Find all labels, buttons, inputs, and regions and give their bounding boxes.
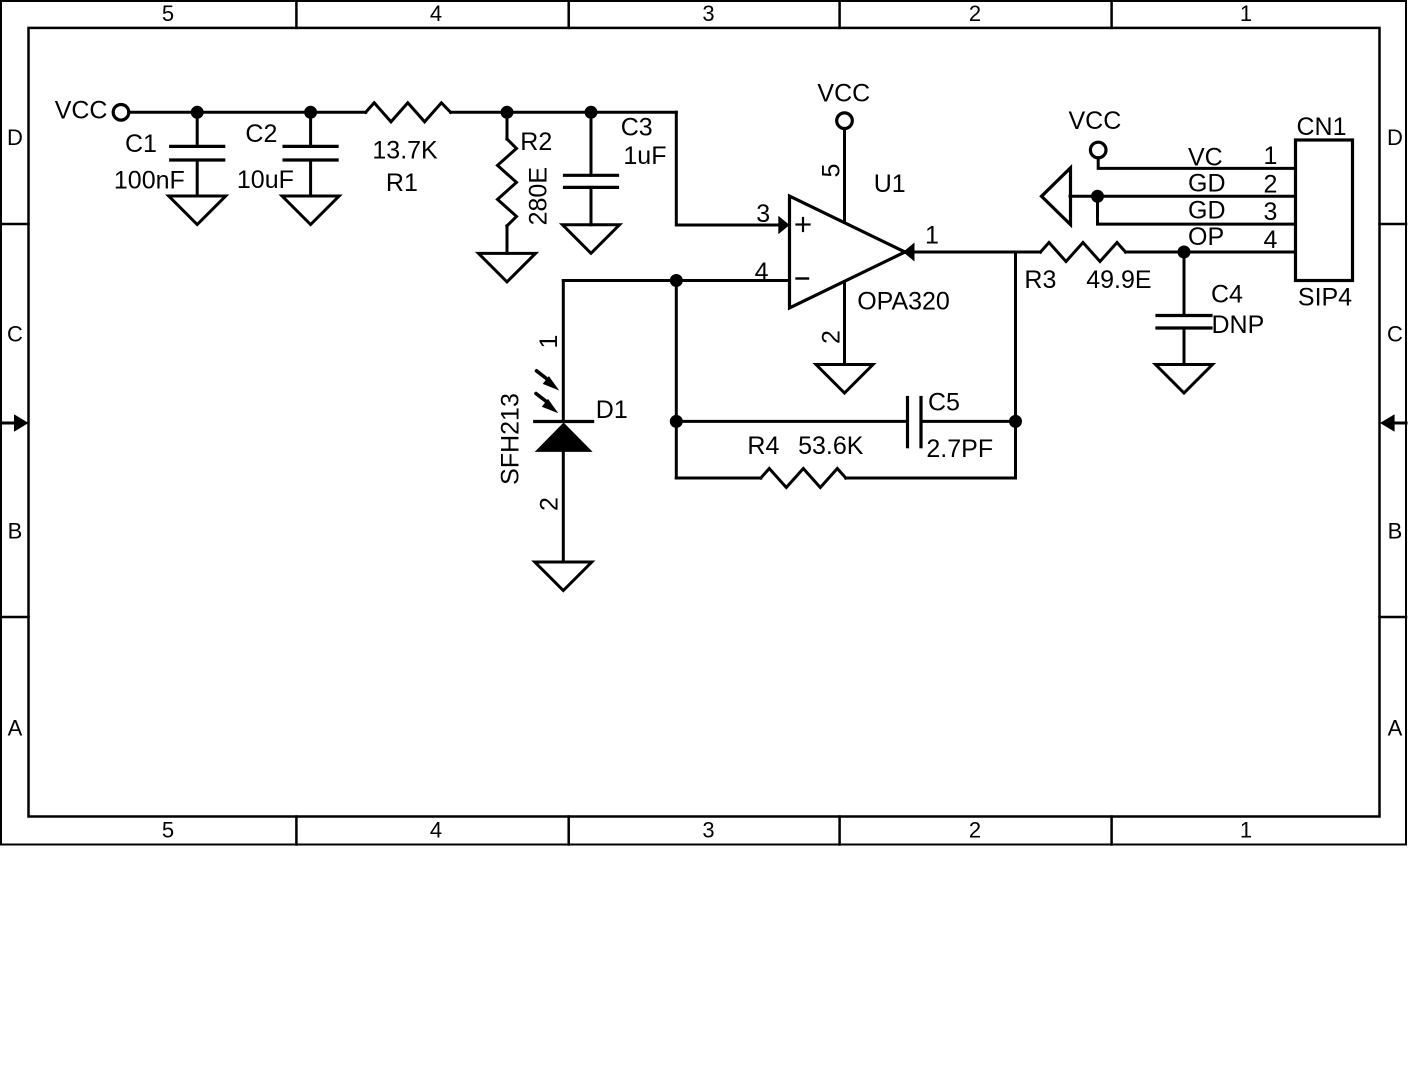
node feedback left junction xyxy=(670,415,683,428)
svg-text:2.7PF: 2.7PF xyxy=(926,435,993,463)
svg-text:2: 2 xyxy=(1264,170,1278,198)
svg-text:VCC: VCC xyxy=(55,97,108,125)
resistor R3 xyxy=(1041,243,1126,262)
wire VCC rail xyxy=(129,111,366,114)
node junction C2 xyxy=(304,106,317,119)
node feedback right junction xyxy=(1009,415,1022,428)
capacitor C5 xyxy=(908,398,922,447)
pin3 input arrow xyxy=(778,216,789,234)
wire feedback bottom right xyxy=(846,421,1016,478)
wire feedback vertical right xyxy=(1014,252,1017,421)
svg-text:B: B xyxy=(8,519,23,544)
svg-text:D: D xyxy=(1387,125,1403,150)
op-amp plus sign xyxy=(797,218,810,231)
capacitor C1 xyxy=(171,112,224,196)
connector CN1 body xyxy=(1296,140,1353,281)
svg-text:R1: R1 xyxy=(386,169,418,197)
svg-text:U1: U1 xyxy=(874,170,906,198)
svg-text:3: 3 xyxy=(756,200,770,228)
capacitor C2 xyxy=(284,112,337,196)
svg-text:1uF: 1uF xyxy=(623,142,666,170)
svg-text:2: 2 xyxy=(535,497,563,511)
svg-text:VCC: VCC xyxy=(817,80,870,108)
svg-text:OP: OP xyxy=(1188,223,1224,251)
ground under D1 xyxy=(535,562,592,591)
svg-text:2: 2 xyxy=(969,818,981,843)
svg-text:5: 5 xyxy=(162,818,174,843)
svg-text:100nF: 100nF xyxy=(114,167,185,195)
svg-text:OPA320: OPA320 xyxy=(857,288,950,316)
svg-text:5: 5 xyxy=(818,164,846,178)
wire GD row 2 xyxy=(1070,195,1296,198)
svg-text:2: 2 xyxy=(969,1,981,26)
node junction C3 xyxy=(585,106,598,119)
svg-text:1: 1 xyxy=(925,222,939,250)
VCC terminal U1 xyxy=(837,113,853,129)
wire output xyxy=(915,251,1041,254)
svg-text:1: 1 xyxy=(1264,142,1278,170)
svg-text:280E: 280E xyxy=(524,167,552,225)
ground under C2 xyxy=(282,196,339,225)
VCC terminal CN1 xyxy=(1090,142,1106,158)
svg-text:10uF: 10uF xyxy=(237,166,294,194)
ground arrow CN1 xyxy=(1042,168,1071,225)
op-amp minus sign xyxy=(797,277,809,279)
svg-text:4: 4 xyxy=(430,818,442,843)
ground under C1 xyxy=(169,196,226,225)
output arrow pin1 xyxy=(903,243,915,262)
VCC terminal left xyxy=(113,105,129,121)
light arrow 2 xyxy=(536,394,558,414)
resistor R2 xyxy=(498,112,517,253)
svg-text:C: C xyxy=(1387,322,1403,347)
svg-text:13.7K: 13.7K xyxy=(372,137,438,165)
wire feedback top right xyxy=(923,420,1016,423)
svg-text:CN1: CN1 xyxy=(1297,113,1347,141)
svg-text:4: 4 xyxy=(1264,226,1278,254)
svg-text:49.9E: 49.9E xyxy=(1086,266,1151,294)
wire D1 anode drop xyxy=(562,281,565,422)
svg-text:1: 1 xyxy=(1240,818,1252,843)
capacitor C3 xyxy=(565,112,618,225)
svg-text:3: 3 xyxy=(702,1,714,26)
svg-text:GD: GD xyxy=(1188,196,1226,224)
svg-text:VCC: VCC xyxy=(1069,107,1122,135)
wire feedback bottom left xyxy=(676,477,761,480)
wire pin4 xyxy=(563,279,789,282)
svg-text:53.6K: 53.6K xyxy=(798,432,864,460)
resistor R1 xyxy=(366,103,451,122)
ground under C4 xyxy=(1156,365,1213,394)
svg-text:A: A xyxy=(1388,716,1403,741)
svg-text:SIP4: SIP4 xyxy=(1298,284,1352,312)
svg-text:R3: R3 xyxy=(1024,266,1056,294)
svg-text:5: 5 xyxy=(162,1,174,26)
wire corner to pin3 xyxy=(676,112,778,225)
wire feedback vertical left xyxy=(675,281,678,479)
svg-text:3: 3 xyxy=(702,818,714,843)
svg-text:4: 4 xyxy=(755,258,769,286)
wire rail right of R1 xyxy=(451,111,677,114)
svg-text:GD: GD xyxy=(1188,170,1226,198)
svg-text:SFH213: SFH213 xyxy=(496,393,524,485)
ground under U1 xyxy=(816,365,873,394)
svg-text:C5: C5 xyxy=(928,389,960,417)
svg-text:2: 2 xyxy=(817,330,845,344)
wire R3 to CN1 xyxy=(1126,251,1296,254)
wire D1 to ground xyxy=(562,452,565,563)
svg-text:A: A xyxy=(8,716,23,741)
svg-text:C3: C3 xyxy=(621,114,653,142)
svg-text:D1: D1 xyxy=(596,396,628,424)
node junction C1 xyxy=(191,106,204,119)
svg-text:C1: C1 xyxy=(125,130,157,158)
svg-text:C4: C4 xyxy=(1211,281,1243,309)
node GD junction xyxy=(1091,190,1104,203)
svg-text:3: 3 xyxy=(1264,198,1278,226)
capacitor C4 xyxy=(1157,252,1211,365)
node junction C4 xyxy=(1178,246,1191,259)
photodiode D1 body xyxy=(535,423,593,452)
svg-text:VC: VC xyxy=(1188,144,1223,172)
node pin4 feedback junction xyxy=(670,274,683,287)
svg-text:R2: R2 xyxy=(520,128,552,156)
photodiode D1 cathode bar xyxy=(535,420,593,423)
svg-text:1: 1 xyxy=(1240,1,1252,26)
wire feedback top left xyxy=(676,420,906,423)
wire pin5 VCC xyxy=(843,129,846,223)
svg-text:D: D xyxy=(7,125,23,150)
wire VC row xyxy=(1098,158,1295,169)
svg-text:DNP: DNP xyxy=(1212,311,1265,339)
svg-text:C: C xyxy=(7,322,23,347)
node junction R2 xyxy=(501,106,514,119)
op-amp U1 xyxy=(790,196,906,308)
resistor R4 xyxy=(761,469,846,488)
svg-text:R4: R4 xyxy=(747,432,779,460)
light arrow 1 xyxy=(537,371,560,391)
svg-text:B: B xyxy=(1388,519,1403,544)
wire pin2 gnd xyxy=(843,282,846,365)
svg-text:1: 1 xyxy=(535,335,563,349)
wire GD row 3 xyxy=(1098,196,1296,224)
ground under R2 xyxy=(479,253,536,282)
svg-text:4: 4 xyxy=(430,1,442,26)
ground under C3 xyxy=(563,225,620,254)
svg-text:C2: C2 xyxy=(245,120,277,148)
